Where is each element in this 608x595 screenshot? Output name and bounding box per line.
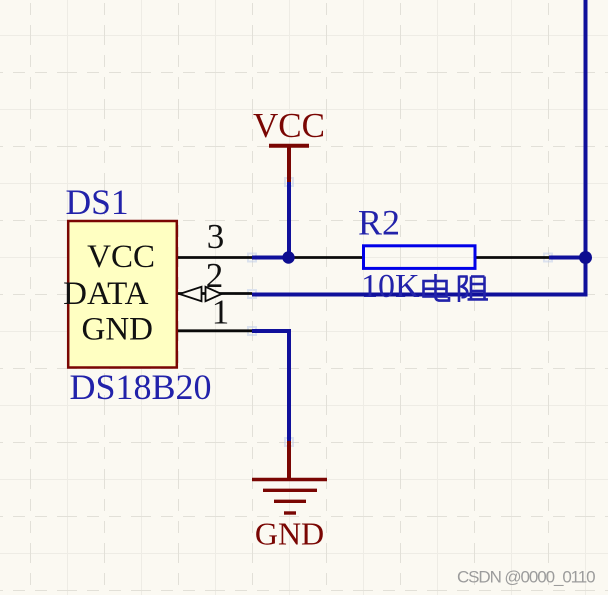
svg-text:R2: R2 <box>358 203 400 243</box>
svg-text:VCC: VCC <box>87 239 155 275</box>
svg-text:10K: 10K <box>361 268 420 305</box>
svg-text:VCC: VCC <box>253 106 325 145</box>
svg-text:DS1: DS1 <box>66 182 129 222</box>
svg-text:3: 3 <box>207 217 225 256</box>
svg-text:GND: GND <box>255 516 324 552</box>
svg-text:DATA: DATA <box>63 276 149 312</box>
svg-text:DS18B20: DS18B20 <box>70 367 212 407</box>
svg-text:CSDN @0000_0110: CSDN @0000_0110 <box>457 568 595 587</box>
svg-text:GND: GND <box>82 311 154 347</box>
svg-text:1: 1 <box>212 293 230 332</box>
svg-text:2: 2 <box>206 256 224 295</box>
